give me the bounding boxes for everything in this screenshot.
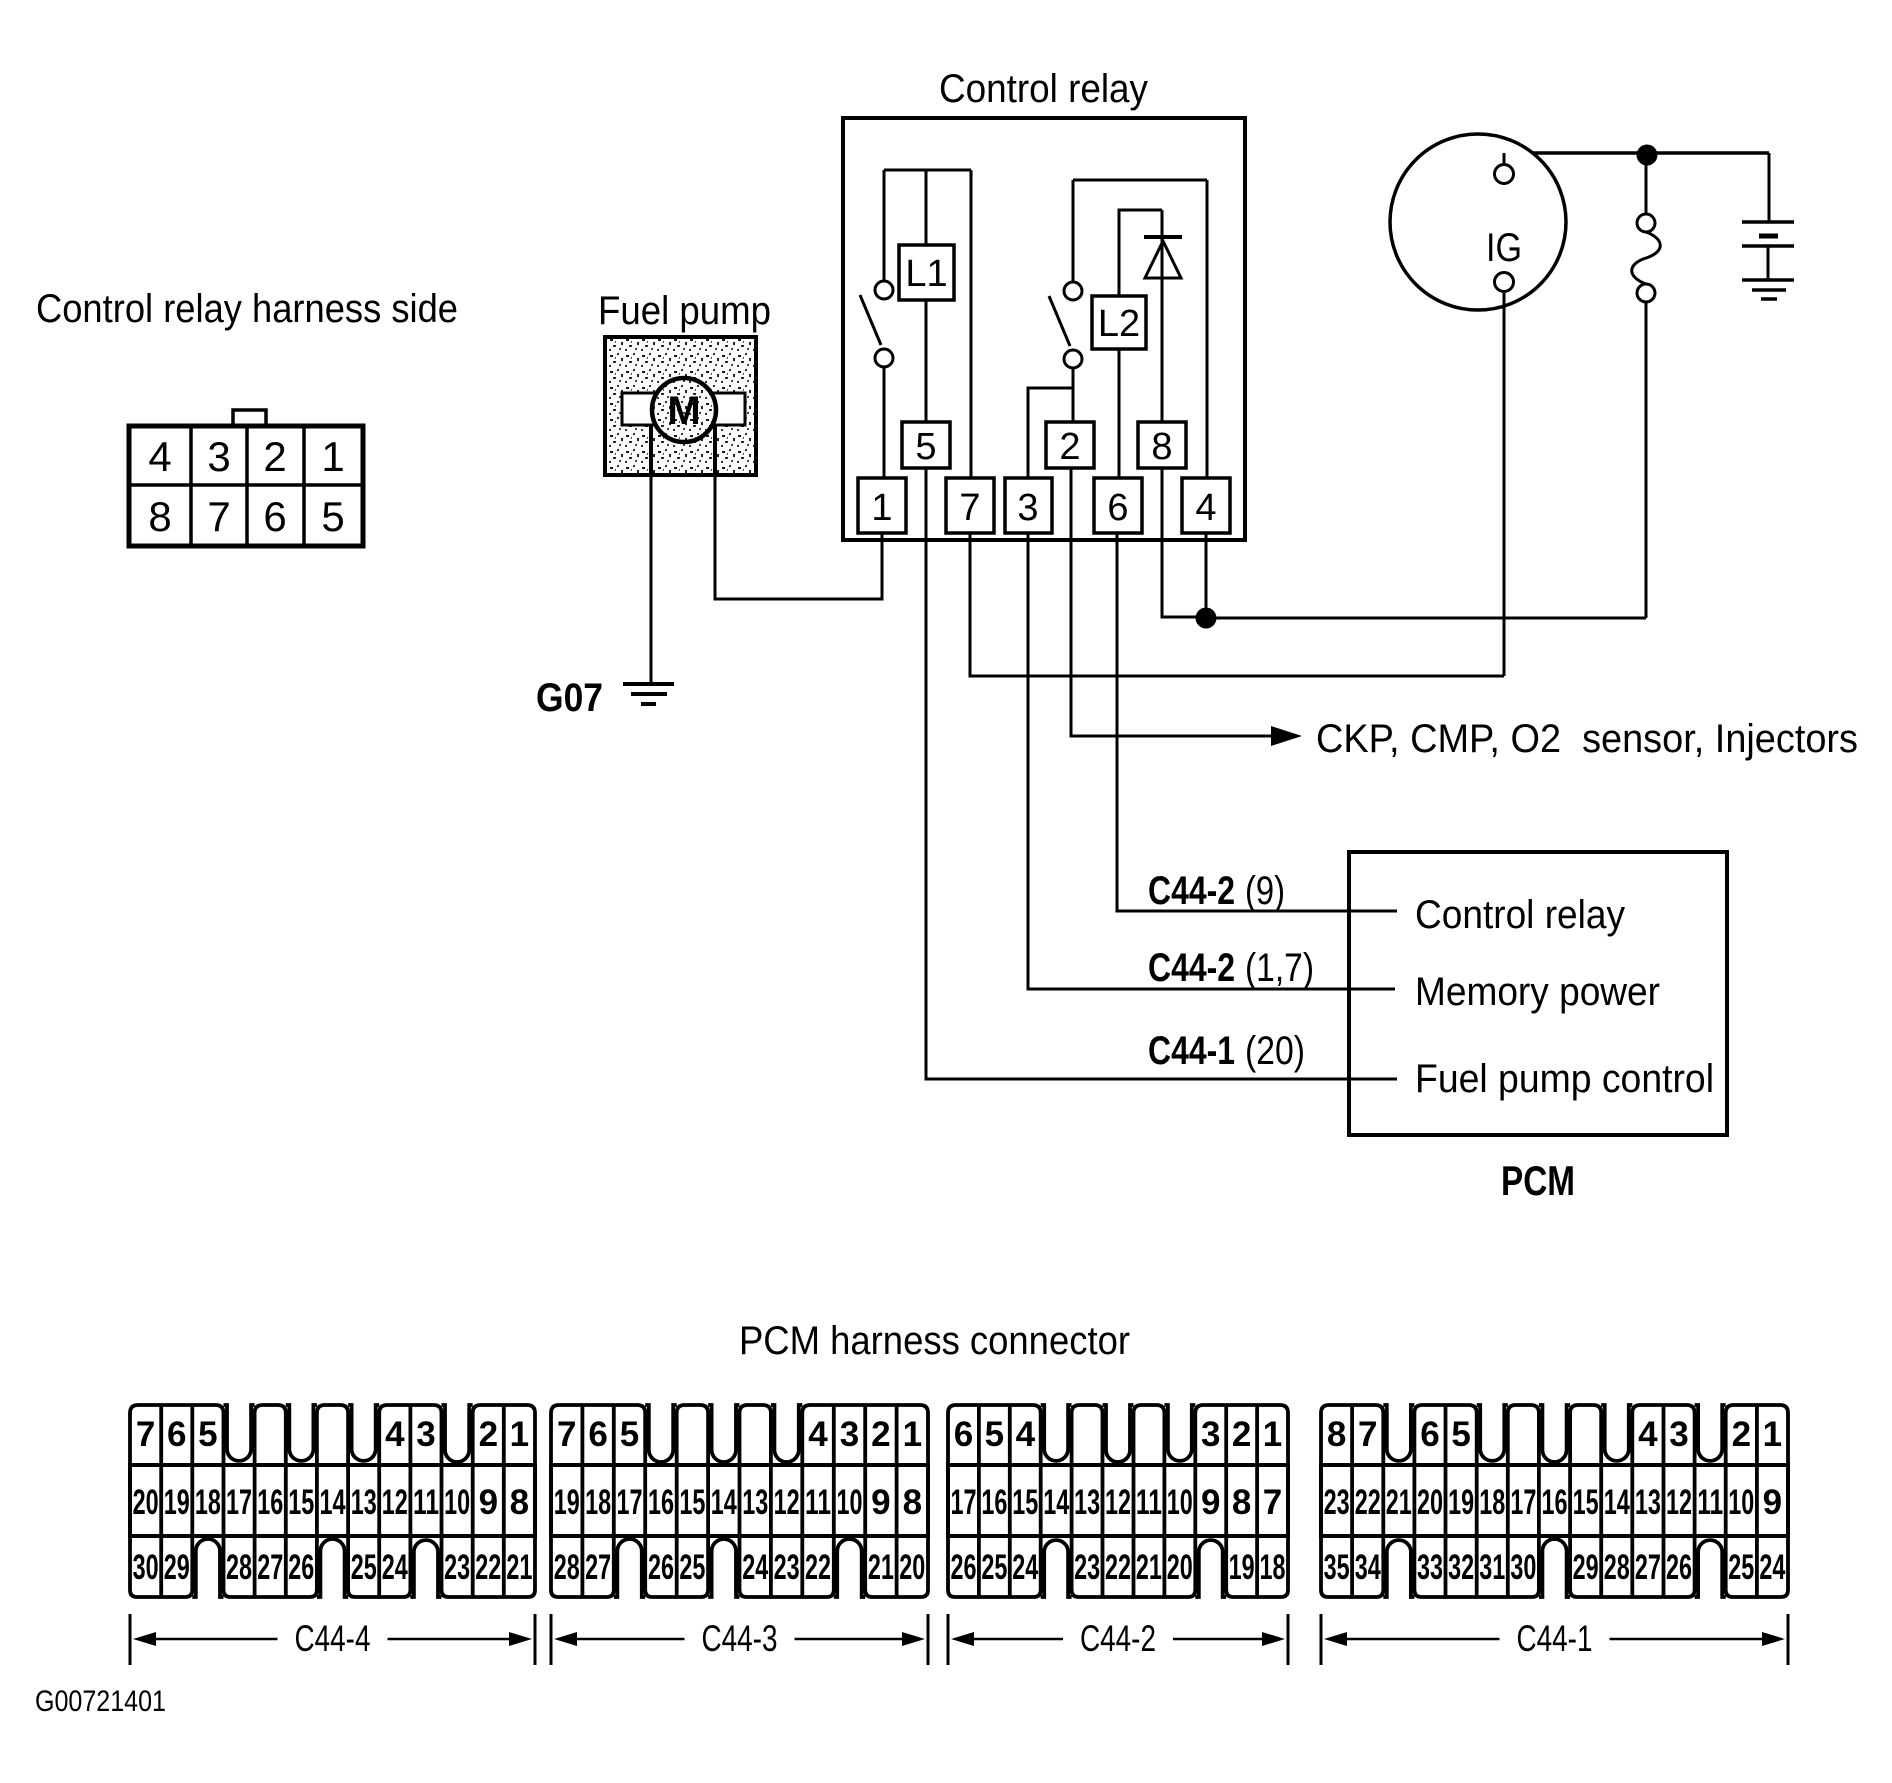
svg-text:21: 21 (1386, 1483, 1412, 1522)
harness connector top tab (233, 410, 266, 428)
svg-text:21: 21 (868, 1548, 894, 1587)
svg-text:21: 21 (1136, 1548, 1162, 1587)
svg-text:7: 7 (207, 493, 230, 540)
svg-text:23: 23 (1324, 1483, 1350, 1522)
svg-text:8: 8 (903, 1483, 922, 1522)
svg-text:17: 17 (1510, 1483, 1536, 1522)
svg-text:34: 34 (1355, 1548, 1381, 1587)
svg-text:Memory power: Memory power (1415, 970, 1660, 1014)
svg-text:3: 3 (416, 1415, 435, 1454)
svg-text:18: 18 (195, 1483, 221, 1522)
wire: left tab to box bottom (inside) (649, 425, 653, 475)
svg-text:20: 20 (1167, 1548, 1193, 1587)
svg-text:(20): (20) (1245, 1029, 1305, 1073)
svg-text:26: 26 (288, 1548, 314, 1587)
dimension line C44-4 (130, 1614, 535, 1665)
wire: bus down to pin 7 (970, 170, 973, 478)
svg-text:16: 16 (257, 1483, 283, 1522)
C44-2 pin numbers (951, 1415, 1286, 1587)
svg-text:C44-2: C44-2 (1080, 1618, 1156, 1659)
svg-text:18: 18 (1260, 1548, 1286, 1587)
svg-text:32: 32 (1448, 1548, 1474, 1587)
svg-text:5: 5 (321, 493, 344, 540)
svg-text:5: 5 (915, 426, 936, 468)
ignition switch IG (1390, 134, 1566, 310)
junction node at battery feed (1637, 145, 1658, 166)
relay pin 1 (858, 478, 906, 533)
wire: L1 top lead (925, 170, 928, 245)
dimension line C44-1 (1321, 1614, 1788, 1665)
svg-text:1: 1 (1763, 1415, 1782, 1454)
wire: bus to switch S2 top contact (1072, 180, 1075, 282)
svg-text:9: 9 (1201, 1483, 1220, 1522)
svg-text:23: 23 (444, 1548, 470, 1587)
C44-1 pin numbers (1324, 1415, 1786, 1587)
svg-text:3: 3 (1201, 1415, 1220, 1454)
svg-text:25: 25 (679, 1548, 705, 1587)
svg-text:22: 22 (805, 1548, 831, 1587)
wire: relay pin 4 to B+ node (1206, 533, 1646, 618)
svg-text:6: 6 (954, 1415, 973, 1454)
svg-text:13: 13 (1635, 1483, 1661, 1522)
fuel pump motor M (652, 378, 716, 442)
junction node below pin 4 (1196, 608, 1217, 629)
svg-text:7: 7 (136, 1415, 155, 1454)
svg-text:19: 19 (554, 1483, 580, 1522)
wire: relay pin 5 to PCM fuel pump control (926, 468, 1397, 1079)
svg-text:2: 2 (479, 1415, 498, 1454)
svg-text:14: 14 (1043, 1483, 1069, 1522)
svg-text:29: 29 (1573, 1548, 1599, 1587)
svg-text:Control relay: Control relay (939, 67, 1148, 111)
svg-text:22: 22 (1105, 1548, 1131, 1587)
svg-text:25: 25 (981, 1548, 1007, 1587)
svg-text:15: 15 (288, 1483, 314, 1522)
svg-text:20: 20 (1417, 1483, 1443, 1522)
svg-text:11: 11 (413, 1483, 439, 1522)
svg-text:24: 24 (1012, 1548, 1038, 1587)
svg-text:5: 5 (985, 1415, 1004, 1454)
relay pin 3 (1005, 478, 1052, 533)
svg-text:19: 19 (164, 1483, 190, 1522)
relay coil L2 (1092, 296, 1146, 349)
svg-text:20: 20 (899, 1548, 925, 1587)
svg-text:6: 6 (167, 1415, 186, 1454)
dimension line C44-2 (948, 1614, 1288, 1665)
svg-text:8: 8 (148, 493, 171, 540)
wire: junction S2 to pin 3 (1028, 388, 1073, 478)
wire: relay right inner top bus (1073, 179, 1207, 182)
svg-text:9: 9 (479, 1483, 498, 1522)
fusible link (1632, 155, 1661, 618)
svg-text:8: 8 (1232, 1483, 1251, 1522)
wire: L2 bottom lead to pin 6 (1118, 349, 1121, 478)
svg-text:30: 30 (133, 1548, 159, 1587)
svg-text:28: 28 (1604, 1548, 1630, 1587)
wire: bus down to pin 4 (1206, 180, 1209, 478)
svg-text:31: 31 (1479, 1548, 1505, 1587)
fuel pump body (speckled) (605, 337, 756, 475)
wire: S2 to pin 2 (1072, 368, 1075, 422)
wire: IG bottom pin down (1503, 291, 1506, 676)
svg-text:11: 11 (1136, 1483, 1162, 1522)
switch S1 blade (860, 295, 881, 345)
wire: bus to switch S1 top contact (883, 170, 886, 281)
svg-text:C44-3: C44-3 (702, 1618, 778, 1659)
svg-text:27: 27 (1635, 1548, 1661, 1587)
diode D1 cathode bar (1144, 235, 1182, 239)
fuel pump right terminal tab (712, 393, 745, 425)
svg-text:17: 17 (226, 1483, 252, 1522)
svg-text:Control relay: Control relay (1415, 893, 1625, 937)
svg-text:18: 18 (585, 1483, 611, 1522)
svg-text:2: 2 (1232, 1415, 1251, 1454)
svg-text:19: 19 (1229, 1548, 1255, 1587)
svg-text:4: 4 (385, 1415, 405, 1454)
svg-text:(1,7): (1,7) (1245, 946, 1314, 990)
svg-text:3: 3 (1669, 1415, 1688, 1454)
svg-text:26: 26 (648, 1548, 674, 1587)
svg-text:11: 11 (1697, 1483, 1723, 1522)
relay coil L1 (899, 245, 954, 300)
svg-text:5: 5 (620, 1415, 639, 1454)
svg-text:6: 6 (1107, 487, 1128, 529)
svg-text:4: 4 (1195, 487, 1216, 529)
svg-text:25: 25 (1728, 1548, 1754, 1587)
harness connector body (129, 426, 363, 546)
svg-text:C44-1: C44-1 (1517, 1618, 1593, 1659)
svg-text:1: 1 (1263, 1415, 1282, 1454)
svg-text:5: 5 (1451, 1415, 1470, 1454)
svg-text:C44-4: C44-4 (295, 1618, 371, 1659)
relay pin 2 (1046, 422, 1094, 468)
svg-text:PCM: PCM (1501, 1157, 1575, 1204)
svg-text:8: 8 (1151, 426, 1172, 468)
wire: battery drop (1768, 153, 1771, 222)
svg-text:28: 28 (226, 1548, 252, 1587)
svg-text:G00721401: G00721401 (35, 1685, 166, 1718)
svg-text:G07: G07 (536, 676, 603, 720)
svg-text:M: M (667, 389, 700, 433)
svg-text:10: 10 (1167, 1483, 1193, 1522)
svg-text:15: 15 (1573, 1483, 1599, 1522)
svg-text:13: 13 (1074, 1483, 1100, 1522)
svg-text:24: 24 (742, 1548, 768, 1587)
svg-text:7: 7 (959, 487, 980, 529)
svg-text:2: 2 (871, 1415, 890, 1454)
ground G07 symbol (623, 684, 674, 704)
svg-text:3: 3 (207, 433, 230, 480)
svg-text:15: 15 (1012, 1483, 1038, 1522)
svg-text:27: 27 (585, 1548, 611, 1587)
svg-text:16: 16 (648, 1483, 674, 1522)
battery (1742, 222, 1794, 299)
svg-text:21: 21 (506, 1548, 532, 1587)
svg-text:1: 1 (871, 487, 892, 529)
svg-text:9: 9 (1763, 1483, 1782, 1522)
svg-text:15: 15 (679, 1483, 705, 1522)
control relay box K1 (843, 118, 1245, 540)
svg-text:Fuel pump control: Fuel pump control (1415, 1057, 1714, 1101)
svg-text:5: 5 (198, 1415, 217, 1454)
fuel pump left terminal tab (622, 393, 655, 425)
svg-text:7: 7 (1263, 1483, 1282, 1522)
svg-text:9: 9 (871, 1483, 890, 1522)
harness connector cavity numbers (148, 433, 344, 540)
svg-text:4: 4 (1638, 1415, 1658, 1454)
svg-text:8: 8 (1327, 1415, 1346, 1454)
svg-text:29: 29 (164, 1548, 190, 1587)
C44-4 pin numbers (133, 1415, 533, 1587)
svg-text:L2: L2 (1098, 303, 1140, 345)
svg-text:1: 1 (321, 433, 344, 480)
svg-text:PCM harness connector: PCM harness connector (739, 1319, 1130, 1363)
svg-text:7: 7 (1358, 1415, 1377, 1454)
relay pin 8 (1138, 422, 1186, 468)
wire: S1 to pin 1 (883, 367, 886, 478)
IG bottom pin (1495, 273, 1514, 292)
svg-text:23: 23 (774, 1548, 800, 1587)
svg-text:2: 2 (263, 433, 286, 480)
arrowhead to CKP/CMP (1271, 726, 1302, 746)
svg-text:Control relay harness side: Control relay harness side (36, 287, 458, 331)
svg-text:6: 6 (588, 1415, 607, 1454)
wire: fuel pump to ground G07 (650, 475, 653, 683)
svg-text:13: 13 (742, 1483, 768, 1522)
svg-text:28: 28 (554, 1548, 580, 1587)
svg-text:C44-1: C44-1 (1148, 1029, 1235, 1073)
svg-text:35: 35 (1324, 1548, 1350, 1587)
svg-text:2: 2 (1059, 426, 1080, 468)
svg-text:13: 13 (351, 1483, 377, 1522)
relay pin 7 (946, 478, 994, 533)
svg-text:22: 22 (1355, 1483, 1381, 1522)
svg-text:6: 6 (263, 493, 286, 540)
svg-text:33: 33 (1417, 1548, 1443, 1587)
wire: relay pin 3 to PCM memory power (1028, 533, 1395, 989)
diode D1 triangle (1145, 241, 1181, 278)
svg-text:C44-2: C44-2 (1148, 869, 1235, 913)
wire: relay pin 6 to PCM control relay input (1117, 533, 1397, 911)
svg-text:4: 4 (1016, 1415, 1036, 1454)
wire: relay pin 7 to ignition switch (970, 533, 1504, 676)
svg-text:3: 3 (1017, 487, 1038, 529)
svg-text:C44-2: C44-2 (1148, 946, 1235, 990)
switch S2 bottom contact (1064, 350, 1082, 368)
svg-text:11: 11 (805, 1483, 831, 1522)
svg-text:12: 12 (1666, 1483, 1692, 1522)
wire: IG top pin stub (1503, 153, 1506, 165)
svg-text:19: 19 (1448, 1483, 1474, 1522)
C44-3 pin numbers (554, 1415, 926, 1587)
relay pin 4 (1182, 478, 1230, 533)
svg-text:20: 20 (133, 1483, 159, 1522)
svg-text:12: 12 (382, 1483, 408, 1522)
svg-text:(9): (9) (1245, 869, 1285, 913)
svg-text:3: 3 (840, 1415, 859, 1454)
switch S1 top contact (875, 281, 893, 299)
PCM connector C44-2 (948, 1405, 1288, 1597)
svg-text:14: 14 (711, 1483, 737, 1522)
svg-text:30: 30 (1510, 1548, 1536, 1587)
svg-text:16: 16 (981, 1483, 1007, 1522)
relay pin 6 (1094, 478, 1142, 533)
svg-text:16: 16 (1542, 1483, 1568, 1522)
svg-text:1: 1 (903, 1415, 922, 1454)
wire: fuel pump to relay pin 1 (715, 475, 882, 599)
wire: relay pin 8 to B+ node (1162, 468, 1206, 617)
svg-text:26: 26 (1666, 1548, 1692, 1587)
IG top pin (1495, 165, 1514, 184)
svg-text:L1: L1 (905, 253, 947, 295)
svg-text:26: 26 (951, 1548, 977, 1587)
PCM connector C44-3 (551, 1405, 928, 1597)
wire: right tab to box bottom (inside) (713, 425, 717, 475)
svg-text:18: 18 (1479, 1483, 1505, 1522)
svg-text:4: 4 (148, 433, 171, 480)
svg-text:23: 23 (1074, 1548, 1100, 1587)
wire: IG switch to battery (1504, 151, 1769, 155)
svg-text:14: 14 (320, 1483, 346, 1522)
svg-text:17: 17 (617, 1483, 643, 1522)
switch S2 top contact (1064, 282, 1082, 300)
svg-text:7: 7 (557, 1415, 576, 1454)
svg-text:2: 2 (1732, 1415, 1751, 1454)
dimension line C44-3 (551, 1614, 928, 1665)
wire: relay left inner top bus (884, 169, 971, 172)
wire: diode branch to pin 8 (1161, 210, 1164, 422)
svg-text:24: 24 (382, 1548, 408, 1587)
svg-text:12: 12 (1105, 1483, 1131, 1522)
switch S2 blade (1049, 296, 1070, 346)
svg-text:4: 4 (808, 1415, 828, 1454)
relay pin 5 (902, 422, 950, 468)
svg-text:27: 27 (257, 1548, 283, 1587)
svg-text:8: 8 (510, 1483, 529, 1522)
svg-text:6: 6 (1420, 1415, 1439, 1454)
svg-text:10: 10 (444, 1483, 470, 1522)
PCM connector C44-4 (130, 1405, 535, 1597)
svg-text:10: 10 (1728, 1483, 1754, 1522)
svg-text:17: 17 (951, 1483, 977, 1522)
svg-text:10: 10 (837, 1483, 863, 1522)
svg-text:22: 22 (475, 1548, 501, 1587)
wire: L1 bottom lead to pin 5 (925, 300, 928, 422)
wire: L2 top lead (1119, 210, 1162, 296)
PCM box (1349, 852, 1727, 1135)
wire: relay pin 2 to CKP/CMP feed (1071, 468, 1274, 736)
svg-text:IG: IG (1486, 226, 1522, 270)
switch S1 bottom contact (875, 349, 893, 367)
svg-text:Fuel pump: Fuel pump (598, 289, 771, 333)
PCM connector C44-1 (1321, 1405, 1788, 1597)
svg-text:12: 12 (774, 1483, 800, 1522)
svg-text:14: 14 (1604, 1483, 1630, 1522)
svg-text:24: 24 (1759, 1548, 1785, 1587)
svg-text:1: 1 (510, 1415, 529, 1454)
svg-text:CKP, CMP, O2 sensor, Injector: CKP, CMP, O2 sensor, Injectors (1316, 717, 1858, 761)
svg-text:25: 25 (351, 1548, 377, 1587)
